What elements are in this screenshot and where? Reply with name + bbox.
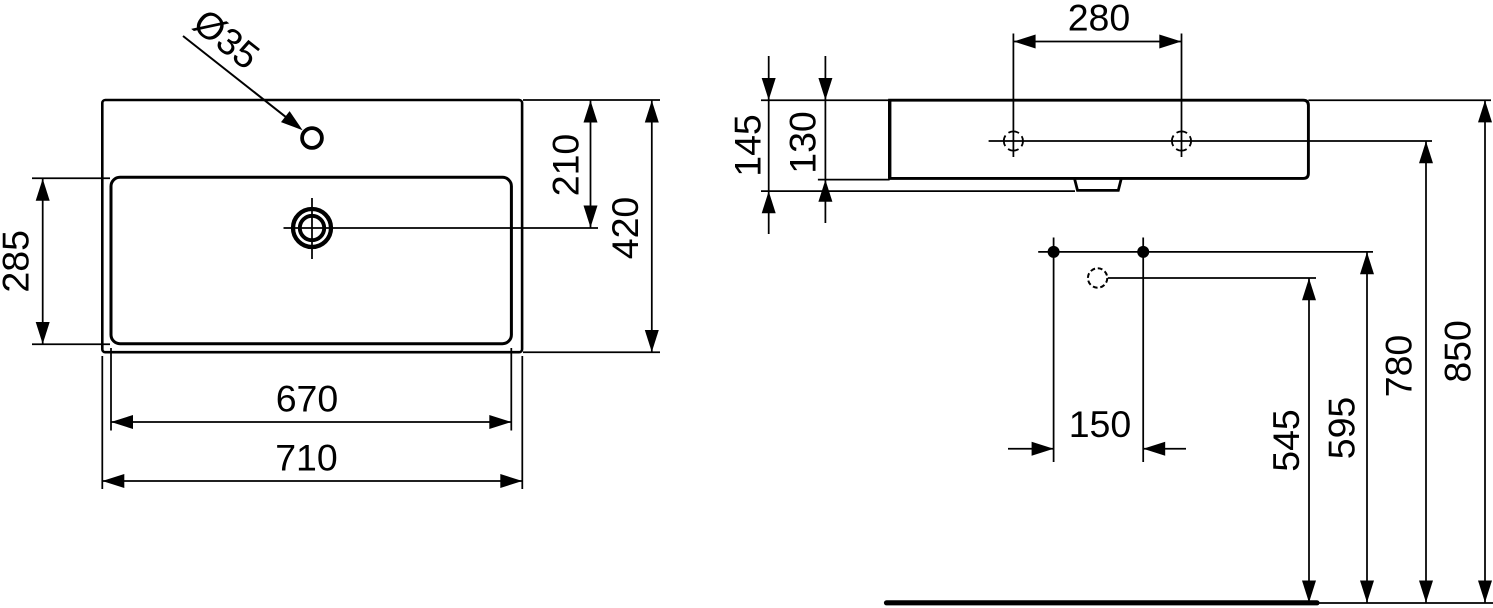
dimension 595 bottom arrow bbox=[1360, 581, 1374, 603]
washbasin profile (side view) bbox=[890, 100, 1309, 178]
tap hole (plan view) bbox=[302, 128, 322, 148]
dimension 130 line bbox=[824, 56, 826, 223]
tap hole centreline horizontal / extension to 780 dimension bbox=[989, 140, 1432, 142]
dimension 710 left arrow bbox=[102, 474, 124, 488]
basin inner bowl (plan view) bbox=[111, 177, 511, 343]
dimension 130 upper arrow (pointing down) bbox=[818, 78, 832, 100]
dimension 710 line bbox=[102, 480, 522, 482]
svg-text:280: 280 bbox=[1068, 0, 1131, 39]
extension line below outer-right bbox=[521, 356, 523, 489]
dimension 595 line bbox=[1366, 252, 1368, 602]
fixing lug / bracket notch (side view) bbox=[1075, 179, 1121, 190]
svg-text:285: 285 bbox=[0, 230, 37, 293]
bolt hole drop line left bbox=[1053, 238, 1055, 463]
floor line (thick) bbox=[887, 600, 1318, 605]
leader arrowhead bbox=[281, 111, 303, 130]
dimension 670 left arrow bbox=[111, 415, 133, 429]
drain centreline horizontal / extension to 210 dimension bbox=[284, 227, 599, 229]
svg-text:145: 145 bbox=[727, 114, 769, 177]
dimension 150 right tail bbox=[1143, 448, 1186, 450]
drain centreline vertical bbox=[311, 198, 313, 259]
bolt hole drop line right bbox=[1142, 238, 1144, 463]
dimension 420 top arrow bbox=[645, 101, 659, 123]
svg-text:595: 595 bbox=[1321, 397, 1363, 460]
dimension 780 line bbox=[1425, 141, 1427, 602]
dimension 850 bottom arrow bbox=[1478, 581, 1492, 603]
leader line for Ø35 bbox=[183, 36, 297, 126]
tap hole centreline vertical right bbox=[1181, 34, 1183, 158]
svg-text:130: 130 bbox=[782, 111, 824, 174]
fixing bolt hole left (dot) bbox=[1048, 246, 1060, 258]
dimension 545 line bbox=[1308, 278, 1310, 602]
extension line 285 bottom bbox=[32, 343, 110, 345]
dimension 670 line bbox=[111, 421, 511, 423]
dimension 150 left tail bbox=[1008, 448, 1054, 450]
dimension 150 right arrow (pointing left) bbox=[1143, 442, 1165, 456]
tap hole right (side view, hidden) bbox=[1172, 131, 1191, 150]
dimension 850 line bbox=[1484, 100, 1486, 602]
dimension 130 lower arrow (pointing up) bbox=[818, 180, 832, 202]
extension line 130 bottom bbox=[818, 179, 890, 181]
svg-text:150: 150 bbox=[1069, 403, 1132, 445]
extension line 850 (top right) bbox=[1308, 99, 1491, 101]
dimension 595 top arrow bbox=[1360, 252, 1374, 274]
extension line 285 top bbox=[32, 177, 110, 179]
floor line extension (thin) bbox=[1318, 602, 1493, 604]
extension line 545 (from drain) bbox=[1108, 277, 1316, 279]
drain outlet outer ring (plan view) bbox=[293, 209, 331, 247]
extension line 595 (through bolt holes) bbox=[1038, 251, 1373, 253]
svg-text:710: 710 bbox=[275, 437, 338, 479]
dimension 545 top arrow bbox=[1302, 278, 1316, 300]
svg-text:850: 850 bbox=[1437, 320, 1479, 383]
dimension 145 upper arrow (pointing down) bbox=[762, 78, 776, 100]
dimension 420 line bbox=[651, 101, 653, 353]
dimension 780 top arrow bbox=[1419, 141, 1433, 163]
extension line 145 bottom bbox=[761, 190, 1075, 192]
dimension 285 top arrow bbox=[36, 179, 50, 201]
dimension 710 right arrow bbox=[500, 474, 522, 488]
tap hole left (side view, hidden) bbox=[1004, 131, 1023, 150]
svg-text:420: 420 bbox=[604, 197, 646, 260]
tap hole centreline vertical left bbox=[1012, 34, 1014, 158]
dimension 420 bottom arrow bbox=[645, 330, 659, 352]
washbasin outer rim (plan view) bbox=[102, 100, 522, 352]
extension line bottom right of plan bbox=[523, 351, 660, 353]
svg-text:780: 780 bbox=[1378, 335, 1420, 398]
dimension 780 bottom arrow bbox=[1419, 581, 1433, 603]
svg-text:670: 670 bbox=[276, 377, 339, 419]
drain position (side view, hidden) bbox=[1088, 268, 1107, 287]
fixing bolt hole right (dot) bbox=[1137, 246, 1149, 258]
extension line top (145/130) bbox=[761, 99, 890, 101]
dimension 150 left arrow (pointing right) bbox=[1032, 442, 1054, 456]
dimension 545 bottom arrow bbox=[1302, 581, 1316, 603]
svg-text:210: 210 bbox=[545, 134, 587, 197]
extension line below inner-right bbox=[510, 348, 512, 431]
extension line below outer-left bbox=[101, 356, 103, 489]
svg-text:545: 545 bbox=[1265, 409, 1307, 472]
dimension 280 line bbox=[1014, 41, 1182, 43]
dimension 850 top arrow bbox=[1478, 100, 1492, 122]
dimension 210 bottom arrow bbox=[584, 206, 598, 228]
dimension 210 line bbox=[590, 101, 592, 228]
dimension 280 right arrow bbox=[1159, 35, 1181, 49]
dimension 285 bottom arrow bbox=[36, 322, 50, 344]
extension line below inner-left bbox=[110, 348, 112, 431]
drain outlet inner ring (plan view) bbox=[300, 216, 324, 240]
extension line top right of plan bbox=[523, 99, 660, 101]
dimension 285 line bbox=[42, 179, 44, 344]
dimension 670 right arrow bbox=[489, 415, 511, 429]
dimension 210 top arrow bbox=[584, 101, 598, 123]
dimension 280 left arrow bbox=[1014, 35, 1036, 49]
washbasin profile back edge emphasis (side view) bbox=[888, 100, 891, 178]
dimension 145 line bbox=[768, 56, 770, 234]
dimension 145 lower arrow (pointing up) bbox=[762, 191, 776, 213]
